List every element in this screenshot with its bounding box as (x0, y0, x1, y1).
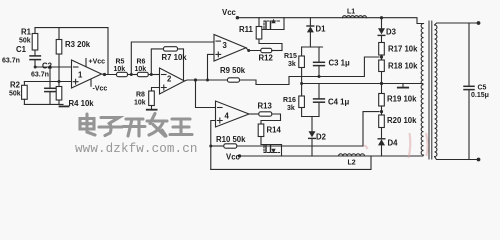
resistor R12 (261, 48, 282, 52)
inductor L1 (343, 16, 367, 18)
resistor R9 (228, 77, 290, 85)
svg-text:R16: R16 (283, 97, 296, 104)
resistor R19 (379, 84, 385, 116)
watermark brand glyphs (80, 114, 192, 137)
node C2 junction (49, 66, 52, 69)
wire op4 noninverting to bottom rail (211, 121, 216, 170)
wire op4 output (249, 113, 259, 115)
svg-text:C3 1μ: C3 1μ (329, 59, 350, 68)
svg-text:2: 2 (167, 75, 172, 84)
node Vcc top (236, 16, 239, 19)
wire op3 noninverting input riser (208, 54, 215, 80)
svg-text:63.7n: 63.7n (31, 72, 49, 79)
op-amp U4 (216, 101, 250, 127)
svg-text:R15: R15 (284, 53, 297, 60)
resistor R10 (211, 144, 363, 148)
svg-text:R7 10k: R7 10k (162, 53, 188, 62)
wire bottom rail (211, 156, 371, 169)
svg-text:3k: 3k (288, 61, 296, 68)
transformer core (429, 21, 432, 159)
capacitor C3 (314, 47, 325, 77)
svg-text:R18 10k: R18 10k (388, 62, 418, 71)
capacitor C4 (314, 84, 325, 117)
transformer primary winding (421, 24, 423, 156)
resistor R4 (56, 82, 62, 105)
svg-text:4: 4 (225, 112, 230, 121)
node L1 D3 junction (380, 16, 383, 19)
wire secondary bottom to output (435, 157, 479, 160)
wire op3 output (246, 48, 261, 51)
svg-text:R20 10k: R20 10k (387, 116, 417, 125)
inductor L2 (339, 154, 365, 156)
node op3 plus riser (206, 79, 209, 82)
resistor R13 (259, 112, 281, 121)
resistor R14 (258, 121, 280, 145)
node C3 on rail P (318, 75, 321, 78)
wire secondary top to output (435, 23, 479, 25)
wire op2 output down to op4 (196, 80, 216, 108)
node output bottom terminal (477, 158, 481, 162)
svg-text:D3: D3 (386, 28, 397, 37)
resistor R11 (256, 18, 282, 51)
svg-text:R1: R1 (21, 28, 32, 37)
wire R16 C4 merge (302, 116, 319, 118)
svg-text:0.15μ: 0.15μ (471, 92, 489, 99)
node op2 output split (194, 78, 197, 81)
watermark pink remnant (364, 133, 428, 158)
diode D4 (378, 139, 385, 156)
svg-text:C4 1μ: C4 1μ (328, 98, 349, 107)
svg-text:Vcc: Vcc (226, 153, 241, 162)
svg-text:R9 50k: R9 50k (220, 66, 246, 75)
svg-text:R6: R6 (137, 59, 146, 66)
svg-text:10k: 10k (134, 100, 146, 107)
power Vcc top rail (237, 18, 423, 24)
op-amp U2 (160, 68, 185, 94)
diode D3 (378, 18, 385, 43)
svg-text:D4: D4 (388, 139, 399, 148)
diode D1 (307, 18, 314, 47)
node R19 R20 junction (380, 110, 383, 113)
transformer secondary winding (435, 25, 437, 157)
svg-text:R2: R2 (10, 81, 21, 90)
ground center tap (398, 84, 408, 88)
wire ground rail left (24, 103, 63, 105)
svg-text:R5: R5 (116, 59, 125, 66)
svg-text:L2: L2 (348, 160, 356, 167)
svg-text:-Vcc: -Vcc (93, 86, 108, 93)
resistor R8 (149, 88, 160, 110)
wire op1 output (102, 73, 117, 76)
svg-text:3: 3 (223, 41, 228, 50)
wire op2 output (185, 80, 228, 81)
resistor R20 (379, 115, 385, 139)
op-amp U1 (72, 60, 102, 88)
svg-text:D2: D2 (316, 133, 327, 142)
op-amp U3 (214, 35, 246, 62)
svg-text:C1: C1 (16, 45, 27, 54)
node R10 junction (209, 145, 212, 148)
svg-text:R4 10k: R4 10k (69, 99, 95, 108)
svg-text:50k: 50k (19, 38, 31, 45)
resistor R6 (137, 72, 148, 76)
svg-text:R12: R12 (259, 54, 274, 63)
node R5 R6 junction (130, 73, 133, 76)
svg-text:3k: 3k (287, 105, 295, 112)
svg-text:Vcc: Vcc (222, 8, 237, 17)
node op1 output (103, 73, 106, 76)
wire rail P to divider R17 R18 (289, 57, 379, 77)
capacitor C5 (464, 23, 474, 160)
node R18 rail Q (380, 82, 383, 85)
node R17 R18 junction (380, 55, 383, 58)
power +Vcc tick op1 (85, 59, 87, 67)
svg-text:+Vcc: +Vcc (89, 59, 106, 66)
node op3 output (247, 49, 250, 52)
node R15 R16 on rail Q (300, 82, 303, 85)
svg-text:1: 1 (78, 71, 83, 80)
svg-text:D1: D1 (316, 25, 327, 34)
node output top terminal (477, 21, 481, 25)
resistor R15 (299, 47, 305, 84)
labels left block (2, 8, 489, 167)
svg-text:R11: R11 (239, 25, 254, 34)
resistor R18 (379, 60, 385, 84)
wire R5 R6 (128, 74, 138, 76)
svg-text:R17 10k: R17 10k (388, 45, 418, 54)
node R3 R4 junction (58, 80, 61, 83)
resistor R5 (117, 72, 128, 76)
svg-text:10k: 10k (135, 66, 147, 73)
svg-text:R8: R8 (136, 92, 145, 99)
node C1 junction (34, 66, 37, 69)
resistor R2 (22, 82, 28, 105)
wire noninverting input op1 (24, 81, 71, 83)
resistor R3 (56, 28, 62, 82)
resistor R7 (151, 47, 183, 80)
power -Vcc tick op1 (90, 80, 92, 87)
svg-text:63.7n: 63.7n (2, 58, 20, 65)
diode D2 (309, 117, 316, 157)
capacitor C1 (30, 56, 40, 67)
resistor R1 (32, 28, 38, 56)
transistor Q1 (263, 18, 285, 30)
resistor R16 (299, 84, 305, 117)
wire R5R6 junction to op3 inverting input (131, 42, 214, 75)
transistor Q2 (261, 145, 282, 157)
node Vcc bottom (238, 154, 241, 157)
wire node D1 R15 C3 (302, 46, 323, 48)
svg-text:R13: R13 (258, 102, 273, 111)
svg-text:R3 20k: R3 20k (65, 40, 91, 49)
wire top feedback rail op1 (35, 28, 108, 75)
wire inverting input op1 (35, 66, 72, 68)
svg-text:L1: L1 (347, 9, 355, 16)
ground R8 (147, 109, 157, 111)
capacitor C2 (45, 67, 55, 104)
resistor R17 (379, 43, 385, 61)
wire center tap rail Q (302, 83, 423, 85)
wire R6 to op2 (148, 74, 159, 76)
ground left (60, 105, 69, 107)
svg-text:R19 10k: R19 10k (387, 95, 417, 104)
svg-text:10k: 10k (114, 66, 126, 73)
svg-text:C5: C5 (478, 85, 487, 92)
svg-text:C2: C2 (42, 62, 53, 71)
svg-text:R14: R14 (267, 126, 282, 135)
node R6 R7 junction (150, 73, 153, 76)
wire R10 riser to divider R19 R20 (363, 112, 379, 146)
svg-text:www.dzkfw.com.cn: www.dzkfw.com.cn (75, 142, 198, 156)
svg-text:50k: 50k (9, 91, 21, 98)
power Vcc bottom wire (240, 155, 423, 157)
svg-text:R10 50k: R10 50k (216, 135, 246, 144)
